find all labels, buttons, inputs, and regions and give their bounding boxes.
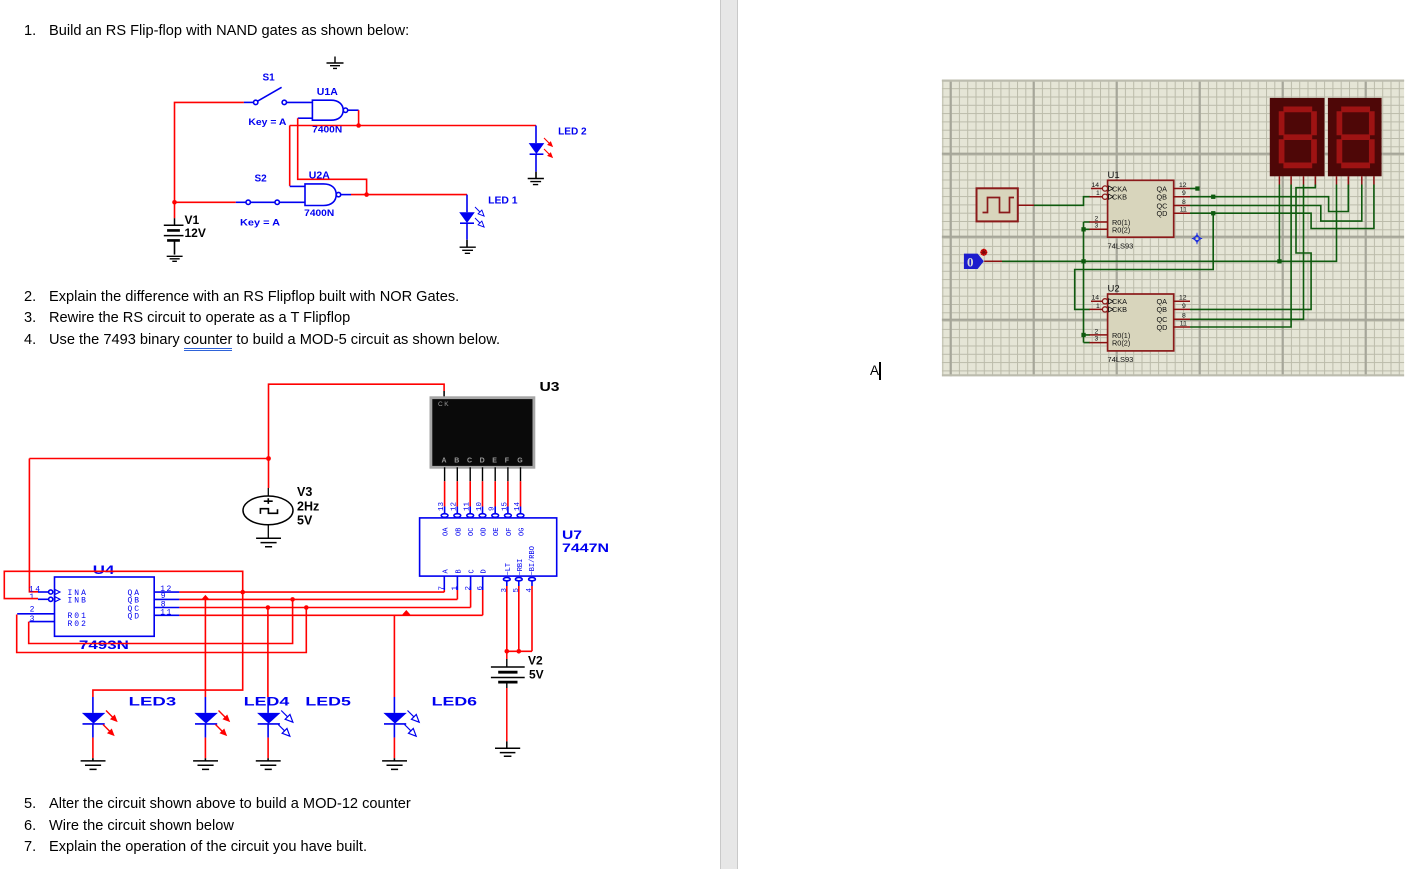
svg-text:3: 3 <box>1095 336 1099 343</box>
V2 value labels <box>528 654 544 682</box>
svg-text:U2A: U2A <box>309 170 330 182</box>
svg-text:C: C <box>469 569 477 573</box>
svg-text:3: 3 <box>1095 223 1099 230</box>
wire U1A output to Q rail <box>358 110 360 125</box>
NAND gate U2A <box>305 184 341 206</box>
svg-text:~BI/RBO: ~BI/RBO <box>529 546 537 575</box>
U7 labels <box>562 528 609 555</box>
ground for V3 <box>256 538 281 547</box>
svg-text:E: E <box>492 458 497 465</box>
svg-text:2: 2 <box>1095 215 1099 222</box>
svg-text:S1: S1 <box>263 73 276 84</box>
switch S1 <box>244 87 313 104</box>
U3 pin wires black segs <box>445 467 521 481</box>
wires LT pins to V2 <box>507 586 532 651</box>
svg-text:2: 2 <box>465 586 473 591</box>
U1 QA wire end <box>1190 188 1197 190</box>
U1A labels <box>312 86 342 135</box>
NAND gate U1A <box>312 100 347 120</box>
svg-text:G: G <box>517 458 523 465</box>
wire U1 QD to U2 CKB cascade <box>1075 213 1214 309</box>
svg-text:10: 10 <box>476 501 484 511</box>
svg-text:13: 13 <box>438 501 446 511</box>
svg-text:74LS93: 74LS93 <box>1108 355 1134 364</box>
svg-text:12: 12 <box>1179 182 1187 189</box>
svg-text:15: 15 <box>501 501 509 511</box>
U1 pin stubs red <box>1090 189 1191 230</box>
svg-text:1: 1 <box>1096 190 1100 197</box>
V2 stem red segments <box>506 651 508 741</box>
svg-text:OD: OD <box>481 528 489 536</box>
svg-text:8: 8 <box>1182 313 1186 320</box>
junction at V1 top rail <box>172 200 177 205</box>
svg-text:C: C <box>467 458 472 465</box>
svg-text:CK: CK <box>438 401 450 408</box>
junction QB to R02 <box>290 597 295 602</box>
stub into U2A input A <box>290 185 305 187</box>
wire clock to U1 CKB <box>1018 197 1090 206</box>
LED1 <box>459 195 475 248</box>
svg-text:LED 1: LED 1 <box>488 195 518 207</box>
U2 clock pin bubbles <box>1102 299 1113 312</box>
U1A input B stub <box>298 117 313 119</box>
ground for LED4 <box>193 761 218 770</box>
S1 label <box>248 73 287 128</box>
clock net V3 to U3 CK and U4 INA <box>29 384 444 592</box>
LED4 lit arrows <box>213 708 232 738</box>
junction probe/display1 pin1 <box>1277 259 1281 263</box>
V1 value labels <box>185 213 206 240</box>
LED2 lit arrows (red) <box>542 136 555 160</box>
U3 pin wires red segs <box>445 481 521 506</box>
svg-text:D: D <box>480 458 485 465</box>
svg-text:QB: QB <box>1157 305 1168 314</box>
svg-text:1: 1 <box>29 593 35 602</box>
svg-text:A: A <box>442 458 447 465</box>
svg-text:U1A: U1A <box>317 86 338 98</box>
U3-U7 pin numbers rotated <box>438 501 522 511</box>
V3 value labels <box>297 485 319 528</box>
QA net red <box>4 571 444 697</box>
LED3 <box>82 697 105 761</box>
U7 top pin bubbles <box>441 507 524 518</box>
U7 top inside pin names rotated <box>443 527 527 536</box>
blue origin crosshair marker <box>1192 233 1202 244</box>
wire battery top to S1 and S2 rail <box>175 102 244 218</box>
wire probe to reset net and displays pin1 <box>984 185 1336 262</box>
svg-text:0: 0 <box>967 254 974 269</box>
svg-text:V3: V3 <box>297 485 312 499</box>
U4 right pin numbers <box>160 585 173 618</box>
svg-text:12: 12 <box>1179 295 1187 302</box>
chip U2 74LS93 <box>1108 284 1174 365</box>
svg-text:7447N: 7447N <box>562 541 609 555</box>
wire U2 QD to DS1 pin2 <box>1190 185 1291 328</box>
ground for V2 <box>495 741 520 756</box>
svg-text:LED 2: LED 2 <box>558 126 587 138</box>
U7 bottom inside pin names rotated <box>442 546 537 575</box>
7seg display DS1 <box>1270 98 1325 176</box>
feedback wire U2A out to U1A input B <box>298 118 367 194</box>
clock generator source <box>977 188 1018 221</box>
svg-text:11: 11 <box>464 501 472 511</box>
svg-text:12V: 12V <box>185 226 206 240</box>
7seg display DS2 <box>1328 98 1382 176</box>
junction probe/reset <box>1081 259 1085 263</box>
svg-text:5V: 5V <box>529 668 544 682</box>
svg-text:Key = A: Key = A <box>248 117 287 127</box>
U7 lamp-test pins with bubbles <box>503 578 535 587</box>
svg-text:3: 3 <box>30 615 36 624</box>
svg-text:U3: U3 <box>540 380 560 394</box>
7493 U4 chip body <box>55 577 155 636</box>
svg-text:LED5: LED5 <box>305 696 351 708</box>
svg-text:8: 8 <box>1182 199 1186 206</box>
svg-text:V1: V1 <box>185 213 200 227</box>
svg-text:4: 4 <box>526 588 534 593</box>
junction Q <box>356 123 361 128</box>
svg-text:OC: OC <box>468 528 476 536</box>
LED5 <box>257 697 280 761</box>
svg-text:74LS93: 74LS93 <box>1108 242 1134 251</box>
svg-text:~RBI: ~RBI <box>517 559 525 576</box>
S2 label <box>240 174 281 228</box>
svg-text:~LT: ~LT <box>505 563 513 576</box>
U1A output stub <box>348 109 359 111</box>
svg-text:14: 14 <box>1092 182 1100 189</box>
wire U1 QD to DS2 pin4 <box>1190 185 1374 229</box>
ground for LED5 <box>256 761 281 770</box>
junctions at V2 node <box>505 649 510 654</box>
svg-text:11: 11 <box>1180 320 1187 327</box>
svg-text:B: B <box>455 569 463 573</box>
U4 pin bubbles and clock wedges <box>17 590 60 622</box>
svg-text:5: 5 <box>513 588 521 593</box>
svg-text:B: B <box>454 458 459 465</box>
probe toggle red dot <box>980 249 987 256</box>
svg-text:9: 9 <box>489 506 497 511</box>
U2A labels <box>304 170 334 219</box>
svg-text:QD: QD <box>128 612 142 621</box>
reset vertical net to RD pins U1 U2 <box>1084 222 1091 343</box>
junction on QB at cascade column <box>1211 195 1215 199</box>
U4 inside pin names <box>68 589 142 629</box>
ground for LED2 <box>528 179 544 185</box>
svg-text:2Hz: 2Hz <box>297 500 319 514</box>
svg-text:U1: U1 <box>1108 170 1120 181</box>
svg-text:LED6: LED6 <box>432 696 478 708</box>
U4 output pin stubs (blue) <box>154 592 179 615</box>
svg-text:1: 1 <box>1096 303 1100 310</box>
wire U2 QC to DS1 pin3 <box>1190 185 1304 320</box>
source V3 <box>243 488 293 538</box>
switch S2 <box>236 200 305 204</box>
U2 pin names <box>1112 297 1167 347</box>
svg-text:9: 9 <box>1182 303 1186 310</box>
svg-text:LED4: LED4 <box>244 696 290 708</box>
chip U1 74LS93 <box>1108 170 1174 251</box>
ground for LED1 <box>460 247 476 253</box>
svg-text:OG: OG <box>519 528 527 536</box>
junction QA <box>240 590 245 595</box>
LED2 <box>529 126 545 179</box>
svg-text:2: 2 <box>30 606 36 615</box>
battery V1 <box>164 218 184 255</box>
DS2 pin stubs <box>1337 176 1374 184</box>
svg-text:5V: 5V <box>297 514 313 528</box>
svg-text:1: 1 <box>452 586 460 591</box>
ground for V1 <box>167 256 183 261</box>
svg-text:9: 9 <box>1182 190 1186 197</box>
svg-text:CKB: CKB <box>1112 193 1127 202</box>
svg-text:R0(2): R0(2) <box>1112 339 1130 348</box>
wire CK pin black segment <box>443 391 445 399</box>
svg-text:3: 3 <box>501 588 509 593</box>
svg-text:CKB: CKB <box>1112 305 1127 314</box>
svg-text:14: 14 <box>1092 295 1100 302</box>
ground for LED6 <box>382 761 407 770</box>
svg-text:D: D <box>481 569 489 573</box>
junction QD cascade <box>1211 211 1215 215</box>
wire U2 QB to DS1 pin4 <box>1190 185 1315 310</box>
wire U1 QC to DS2 pin3 <box>1190 185 1362 222</box>
svg-text:6: 6 <box>477 586 485 591</box>
LED4 <box>194 697 217 761</box>
major grid lines <box>942 80 1404 377</box>
svg-text:12: 12 <box>451 502 459 511</box>
junction Qbar feedback <box>364 192 369 197</box>
U7 bottom pin numbers rotated <box>439 586 535 593</box>
svg-text:U7: U7 <box>562 528 582 542</box>
LED5 off arrows <box>276 708 295 738</box>
LED1 off arrows (blue outline) <box>473 205 486 229</box>
junction RD1 U2 <box>1081 333 1085 337</box>
ground for LED3 <box>81 761 106 770</box>
wire Q rail to LED2 and down to U2A input <box>290 126 536 186</box>
LED6 off arrows <box>402 708 421 738</box>
7seg display U3 <box>431 398 534 468</box>
svg-text:R02: R02 <box>68 620 88 629</box>
svg-text:QD: QD <box>1157 323 1168 332</box>
junction QC to R01 <box>304 605 309 610</box>
junction QB to LED4 <box>201 595 209 600</box>
svg-text:QB: QB <box>1157 193 1168 202</box>
svg-text:R0(2): R0(2) <box>1112 226 1130 235</box>
wire DS1 pin1 down to reset rail <box>1278 185 1280 262</box>
QD net red <box>179 590 482 697</box>
LED6 <box>383 697 406 761</box>
numbered list text <box>24 22 36 40</box>
svg-text:7: 7 <box>439 586 447 591</box>
junction clock net <box>266 456 271 461</box>
svg-text:U2: U2 <box>1108 284 1120 295</box>
U2A output stub <box>341 194 351 196</box>
svg-text:F: F <box>505 458 510 465</box>
U1 clock pin bubbles <box>1102 186 1113 199</box>
junction QD to LED6 <box>402 610 410 615</box>
svg-text:7493N: 7493N <box>79 640 129 652</box>
svg-text:V2: V2 <box>528 654 543 668</box>
svg-text:2: 2 <box>1095 328 1099 335</box>
svg-text:OF: OF <box>506 528 514 536</box>
svg-text:S2: S2 <box>255 174 268 185</box>
svg-text:U4: U4 <box>93 563 115 577</box>
svg-text:7400N: 7400N <box>304 208 334 218</box>
svg-text:QD: QD <box>1157 209 1168 218</box>
junction RD2 U1 <box>1081 227 1085 231</box>
wire U2A output to LED1 <box>351 194 467 196</box>
svg-text:Key = A: Key = A <box>240 218 281 228</box>
U2 pin numbers <box>1092 295 1188 343</box>
U2 pin stubs red <box>1090 301 1191 342</box>
QC net red <box>17 590 471 697</box>
page separator <box>720 0 738 869</box>
battery V2 <box>491 659 525 688</box>
grid background <box>942 80 1404 377</box>
svg-text:11: 11 <box>1180 207 1187 214</box>
svg-text:OE: OE <box>493 528 501 536</box>
U7 bottom input pin stubs <box>444 576 482 590</box>
DS1 pin stubs <box>1279 176 1315 184</box>
U4 left pin numbers <box>29 585 42 623</box>
svg-text:INB: INB <box>68 597 88 606</box>
svg-text:14: 14 <box>514 501 522 511</box>
svg-text:OA: OA <box>443 527 451 536</box>
logic state 0 probe <box>964 254 984 270</box>
svg-text:LED3: LED3 <box>129 696 177 708</box>
wire U1 QB to DS2 pin2 <box>1190 185 1348 212</box>
LED3 lit arrows <box>101 708 120 738</box>
svg-text:OB: OB <box>455 528 463 536</box>
ground (top, floating) <box>327 57 344 69</box>
7447 U7 chip body <box>420 518 557 576</box>
U1 pin names <box>1112 184 1167 234</box>
U1 pin numbers <box>1092 182 1188 230</box>
QB net red <box>29 590 458 697</box>
junction QC to LED5 <box>266 605 271 610</box>
typed letter A with caret on right page <box>870 362 879 380</box>
